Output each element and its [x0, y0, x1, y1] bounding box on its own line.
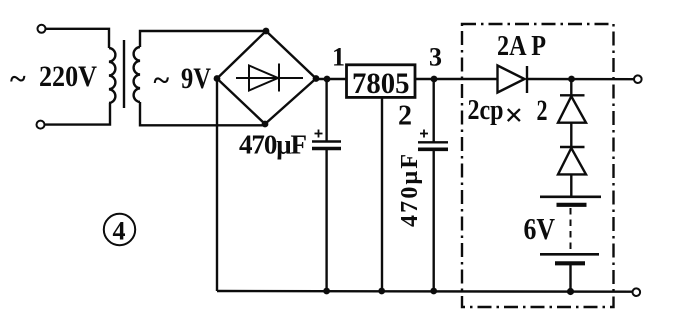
transformer T1 core — [123, 40, 125, 108]
wire 7805 pin 2 to ground rail — [381, 97, 383, 291]
diode D1 (2AP) — [498, 66, 528, 94]
terminal AC input top — [38, 25, 46, 33]
svg-text:6V: 6V — [524, 211, 556, 246]
node battery ground junction — [567, 288, 574, 295]
svg-text:9V: 9V — [181, 62, 211, 95]
wire 7805 output to diode — [415, 78, 498, 80]
battery BT1 cell 1 — [540, 197, 601, 205]
transformer T1 secondary winding — [134, 47, 140, 102]
node bridge left vertex — [214, 75, 221, 82]
capacitor C2 polarity + — [420, 130, 428, 138]
wire secondary bottom to bridge bottom vertex — [140, 102, 265, 125]
svg-text:3: 3 — [429, 43, 442, 72]
wire secondary top to bridge top vertex — [140, 31, 266, 47]
wire ground rail bottom — [217, 290, 633, 293]
wire between chain diodes — [570, 123, 572, 147]
node bridge right vertex — [313, 75, 320, 82]
svg-text:1: 1 — [332, 43, 345, 72]
wire from top AC terminal to transformer primary — [46, 29, 109, 48]
diode D3 (chain bottom) — [558, 147, 586, 174]
capacitor C1 polarity + — [315, 130, 323, 138]
node pin2 ground junction — [378, 288, 385, 295]
svg-text:2: 2 — [398, 100, 412, 131]
diode D2 (chain top) — [558, 95, 586, 122]
wire from bottom AC terminal to transformer primary — [45, 103, 110, 125]
capacitor C1 plates — [312, 142, 341, 149]
svg-text:4: 4 — [113, 217, 126, 246]
figure number circled 4 — [104, 214, 135, 246]
terminal AC input bottom — [37, 121, 45, 129]
svg-text:470μF: 470μF — [397, 154, 423, 227]
wire diode chain to battery — [570, 174, 572, 196]
transformer T1 primary winding — [109, 48, 115, 103]
dash-dot enclosure box — [462, 24, 614, 307]
battery BT1 dashed middle link — [570, 208, 572, 252]
node 3 junction dot — [431, 76, 438, 83]
terminal DC output minus — [633, 288, 641, 296]
svg-text:470μF: 470μF — [239, 130, 307, 160]
svg-text:2A P: 2A P — [497, 31, 546, 62]
node bridge top vertex — [263, 28, 270, 35]
wire junction to diode chain — [570, 79, 572, 95]
regulator U1 7805 box — [347, 65, 416, 98]
wire diode to output terminal — [527, 78, 634, 81]
svg-text:2cp: 2cp — [468, 95, 504, 126]
node C2 ground junction — [430, 288, 437, 295]
terminal DC output plus — [634, 75, 642, 83]
node C1 ground junction — [323, 288, 330, 295]
wire battery to ground rail — [569, 265, 571, 292]
node diode output junction — [568, 76, 575, 83]
wire bridge negative (left vertex) down to ground rail — [216, 79, 218, 292]
node 1 junction dot — [324, 76, 331, 83]
wire bridge output to 7805 input — [316, 78, 347, 80]
bridge inner diode symbol — [236, 64, 303, 92]
svg-text:2: 2 — [537, 94, 548, 127]
svg-text:220V: 220V — [39, 60, 97, 93]
capacitor C2 bottom wire — [433, 151, 435, 291]
battery BT1 cell 2 — [540, 254, 599, 263]
svg-text:~: ~ — [10, 63, 26, 96]
svg-text:7805: 7805 — [352, 67, 410, 100]
capacitor C2 plates — [418, 142, 448, 149]
node bridge bottom vertex — [262, 121, 269, 128]
bridge rectifier diamond — [217, 31, 316, 124]
capacitor C2 top wire — [433, 79, 435, 142]
capacitor C1 bottom wire — [325, 150, 327, 291]
capacitor C1 top wire — [325, 79, 327, 141]
svg-text:~: ~ — [154, 64, 170, 97]
svg-text:×: × — [505, 98, 524, 134]
